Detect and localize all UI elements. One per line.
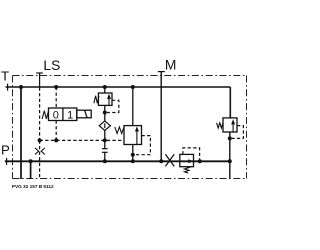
LS port line tick (36, 72, 43, 74)
pressure compensator inlet (132, 87, 134, 126)
svg-text:T: T (1, 68, 9, 83)
node: reducer inlet on tank rail (103, 85, 107, 89)
bypass pilot valve pilot (dashed) (183, 148, 200, 160)
pressure reducing valve (pilot supply) inlet (104, 87, 106, 93)
solenoid valve outlet (dashed to LS gallery) (55, 121, 57, 141)
port T tick (7, 84, 9, 91)
node: compensator outlet on P rail (131, 159, 135, 163)
line diamond to LS gallery (104, 131, 106, 149)
tank rail T (6, 87, 231, 118)
solenoid valve feed (dashed, from tank rail) (55, 87, 57, 108)
relief valve outlet line to P rail and out (229, 132, 231, 179)
bypass pilot valve arrow (188, 159, 193, 163)
port M tick (158, 71, 165, 73)
pressure compensator pilot (dashed loop) (135, 136, 150, 155)
orifice X on P rail (165, 154, 174, 166)
solenoid actuator (77, 110, 91, 118)
svg-text:1: 1 (67, 110, 73, 122)
svg-text:0: 0 (53, 110, 59, 122)
node: plug stub on P rail (103, 159, 107, 163)
node: pilot tap on P rail (198, 159, 202, 163)
solenoid valve body (positions 0/1) (49, 108, 77, 121)
pressure reducing valve pilot (dashed loop) (107, 100, 119, 112)
node: compensator inlet on tank rail (131, 85, 135, 89)
relief valve pilot (dashed loop) (232, 126, 243, 139)
LS bleed line below node through orifice to bottom (39, 140, 41, 179)
pressure compensator spring (115, 127, 124, 134)
svg-text:P: P (1, 142, 10, 157)
pressure compensator outlet (132, 145, 134, 162)
pressure reducing valve body (98, 93, 112, 105)
plugged connection caps (102, 149, 108, 153)
relief valve spring (217, 123, 223, 128)
LS port line (dashed pilot) (39, 73, 41, 88)
pressure reducing valve arrow (107, 94, 111, 106)
node: pump line to P rail (29, 159, 33, 163)
node: M line to P rail (159, 159, 163, 163)
pressure rail P (5, 160, 230, 162)
node: drain to tank rail (19, 85, 23, 89)
port P tick (6, 158, 8, 165)
tank drain line (x=21) (20, 87, 22, 179)
node: valve outlet on LS gallery (54, 138, 58, 142)
relief valve body (223, 118, 237, 132)
stub from P rail to plug (104, 152, 106, 161)
solenoid valve spring (42, 111, 48, 119)
gauge line M (160, 72, 162, 162)
node: LS line / LS gallery (38, 138, 42, 142)
node: pilot pressure on LS gallery (103, 138, 107, 142)
node: compensator pilot tap (131, 153, 135, 157)
node: valve feed on tank rail (54, 85, 58, 89)
bypass pilot valve spring (184, 167, 189, 173)
node: relief outlet on P rail (228, 159, 232, 163)
pressure compensator body (124, 126, 142, 145)
svg-text:M: M (165, 58, 177, 73)
pressure compensator arrow (135, 126, 139, 144)
svg-text:PVG 32 157 B 5112: PVG 32 157 B 5112 (12, 184, 54, 190)
pressure reducing valve spring (94, 96, 99, 103)
LS gallery (dashed horizontal) (40, 139, 124, 141)
LS bleed orifice >< (35, 148, 45, 155)
orifice diamond (99, 121, 110, 131)
enclosure border (dash-dot) (13, 76, 247, 179)
relief valve arrow (231, 119, 235, 132)
pump supply line (x=30.6) (30, 161, 32, 179)
node: reducer outlet / pilot tap (103, 111, 107, 115)
node: relief pilot tap (228, 136, 232, 140)
bypass pilot valve body (180, 154, 194, 166)
svg-text:LS: LS (43, 58, 60, 73)
pressure reducing valve outlet (104, 105, 106, 121)
